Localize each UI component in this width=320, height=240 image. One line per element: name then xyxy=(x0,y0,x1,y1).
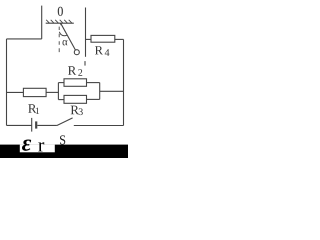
wire left vertical xyxy=(6,39,8,126)
support hatching xyxy=(46,20,72,23)
wire battery to switch xyxy=(37,124,57,126)
wire R1 right xyxy=(46,91,58,93)
switch S blade xyxy=(57,118,73,126)
dashed vertical reference line xyxy=(58,27,60,52)
wire R2 right stub xyxy=(87,82,100,84)
label alpha angle xyxy=(63,40,68,45)
wire R1 left xyxy=(7,91,24,93)
wire left connector of parallel block xyxy=(57,83,59,100)
battery long plate xyxy=(31,118,33,132)
wire bottom left to battery xyxy=(7,124,32,126)
label R2 R xyxy=(68,66,76,75)
battery short plate xyxy=(35,121,37,128)
label O pivot xyxy=(58,7,63,16)
pendulum support line xyxy=(46,22,74,24)
pendulum ball xyxy=(74,50,79,55)
wire top-left horizontal xyxy=(7,38,42,40)
label R1 subscript 1 xyxy=(36,108,39,114)
pendulum rod xyxy=(61,23,76,50)
label R2 subscript 2 xyxy=(78,69,82,76)
label S switch xyxy=(60,135,65,144)
wire middle output xyxy=(100,90,124,92)
wire R4 left stub xyxy=(86,38,92,40)
label R4 R xyxy=(95,46,103,54)
resistor R3 xyxy=(64,95,87,103)
left contact plate xyxy=(41,6,43,39)
wire switch right to corner xyxy=(74,125,124,127)
wire R3 left stub xyxy=(58,99,64,101)
wire R4 right stub xyxy=(115,38,124,40)
label r internal resistance xyxy=(38,142,44,151)
resistor R2 xyxy=(64,79,87,87)
bottom black banner xyxy=(0,145,128,158)
label R3 subscript 3 xyxy=(79,108,83,115)
wire right connector of parallel block xyxy=(99,83,101,100)
wire R3 right stub xyxy=(87,98,100,100)
resistor R1 xyxy=(23,88,46,96)
label epsilon emf xyxy=(22,140,31,151)
label R1 R xyxy=(28,104,36,113)
wire right vertical xyxy=(123,39,125,125)
label R3 R xyxy=(71,106,79,115)
banner white notch xyxy=(20,145,55,153)
resistor R4 xyxy=(91,35,115,42)
right contact rail xyxy=(85,8,87,57)
wire R2 left stub xyxy=(58,82,64,84)
wire dash below rail xyxy=(84,61,86,66)
label R4 subscript 4 xyxy=(105,49,110,56)
pivot knot xyxy=(60,23,62,25)
angle arc xyxy=(59,32,67,36)
